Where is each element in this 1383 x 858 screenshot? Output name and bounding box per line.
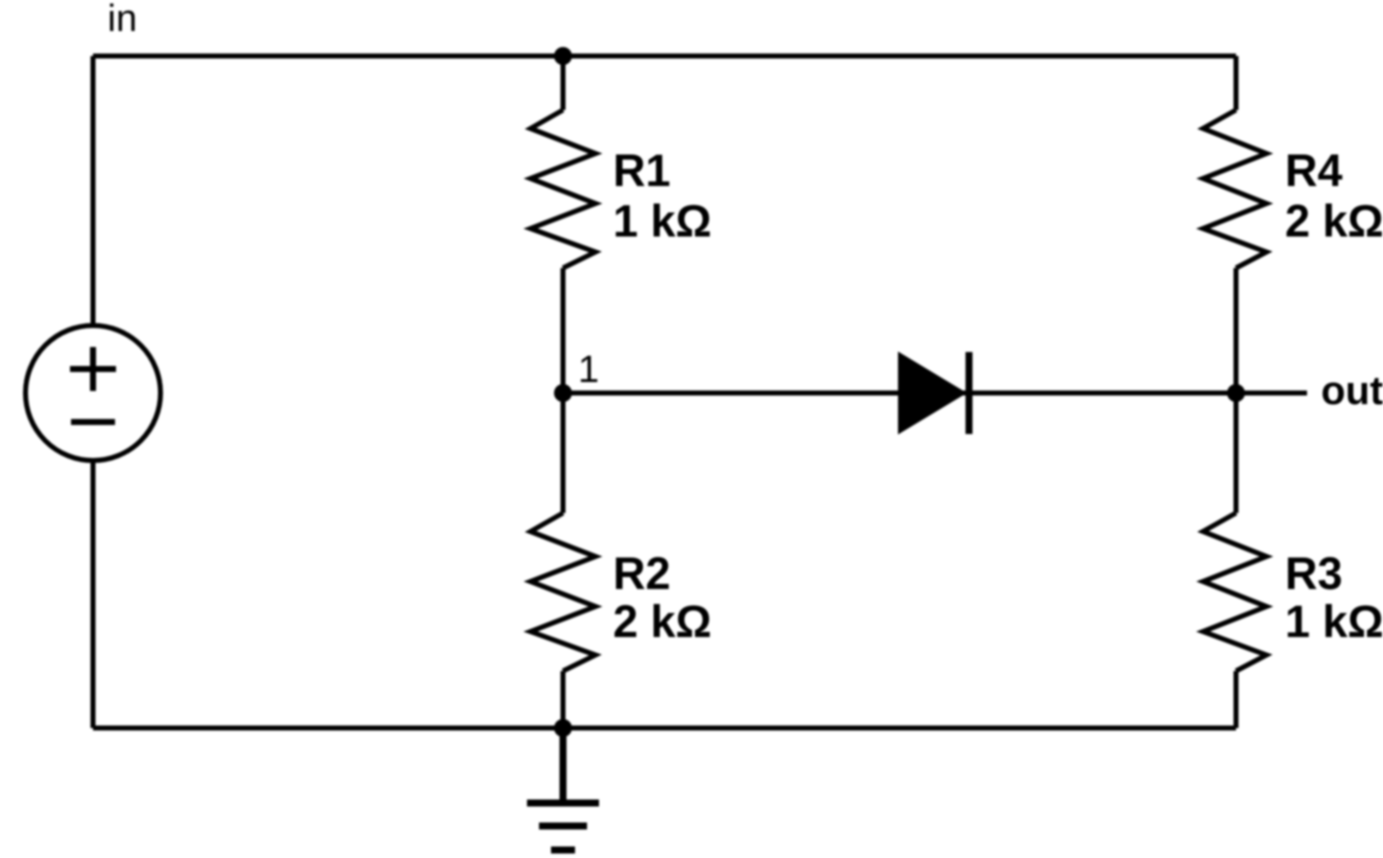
- wire: top rail from node in to top-right corner: [93, 54, 1236, 59]
- wire: out stub: [1236, 391, 1307, 396]
- svg-text:out: out: [1321, 369, 1383, 413]
- wire: right rail (out node to R3 top): [1234, 393, 1239, 513]
- svg-text:R3: R3: [1285, 548, 1343, 599]
- svg-text:R2: R2: [613, 548, 671, 599]
- wire: middle rail top lead (in rail to R1): [561, 56, 566, 110]
- svg-text:in: in: [108, 0, 138, 40]
- wire: node 1 to diode anode: [563, 391, 900, 396]
- junction dot at in/R1 top node: [554, 47, 572, 65]
- wire: bottom rail: [93, 726, 1236, 731]
- svg-text:R4: R4: [1285, 145, 1343, 196]
- wire: middle rail (node 1 to R2 top): [561, 393, 566, 513]
- wire: middle rail (R1 bottom to node 1): [561, 268, 566, 393]
- svg-text:1 kΩ: 1 kΩ: [1285, 596, 1383, 647]
- resistor R4 zigzag: [1203, 110, 1267, 268]
- diode D1 cathode bar: [966, 352, 973, 434]
- resistor R1 zigzag: [531, 110, 596, 268]
- svg-text:2 kΩ: 2 kΩ: [1285, 196, 1383, 247]
- resistor R3 zigzag: [1203, 513, 1267, 671]
- svg-text:1 kΩ: 1 kΩ: [613, 196, 712, 247]
- wire: right rail top lead (top rail to R4): [1234, 56, 1239, 110]
- svg-text:R1: R1: [613, 145, 671, 196]
- junction dot at ground node: [554, 719, 572, 737]
- resistor R2 zigzag: [531, 513, 596, 671]
- junction dot at out node: [1227, 384, 1245, 402]
- diode D1 triangle (anode): [900, 355, 963, 431]
- wire: right rail (R4 bottom to out node): [1234, 268, 1239, 393]
- wire: diode cathode to out node: [963, 391, 1236, 396]
- voltage source V1 circle: [26, 326, 161, 461]
- svg-text:2 kΩ: 2 kΩ: [613, 596, 712, 647]
- wire: right rail bottom lead (R3 to bottom rail): [1234, 671, 1239, 728]
- wire: left rail lower (voltage source - to bottom rail): [91, 460, 96, 728]
- voltage source minus sign: [71, 419, 115, 425]
- voltage source plus sign: [70, 347, 116, 391]
- wire: left rail upper (in node to voltage source +): [91, 56, 96, 326]
- svg-text:1: 1: [578, 349, 599, 391]
- ground symbol: [527, 728, 599, 850]
- wire: middle rail bottom lead (R2 to ground node): [561, 671, 566, 728]
- junction dot at node 1: [554, 384, 572, 402]
